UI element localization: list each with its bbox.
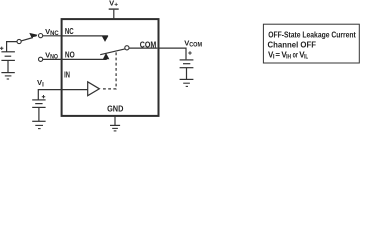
svg-text:NC: NC (50, 31, 59, 37)
battery B2 (VCOM) plate long (180, 59, 194, 61)
svg-text:Channel OFF: Channel OFF (268, 41, 317, 50)
svg-text:GND: GND (107, 105, 124, 114)
svg-text:IN: IN (64, 70, 70, 79)
plus sign B1 (0, 47, 3, 50)
ground G3 bar3 (186, 85, 188, 87)
terminal VNC circle (39, 34, 43, 38)
wire VNC to box (43, 35, 63, 37)
battery B3 plate long 2 (32, 106, 45, 108)
svg-text:=: = (275, 51, 280, 60)
buffer U2 triangle (88, 82, 100, 96)
dashed control line (103, 51, 116, 89)
switch blade COM (100, 49, 125, 55)
terminal VNO circle (39, 57, 43, 61)
svg-text:OFF-State Leakage Current: OFF-State Leakage Current (268, 31, 356, 40)
svg-text:COM: COM (140, 40, 157, 49)
battery B1 plate long 2 (1, 59, 15, 61)
wire COM to VCOM corner (129, 48, 186, 59)
V+ supply terminal bar (109, 8, 119, 10)
svg-text:COM: COM (189, 43, 202, 49)
ground G4 bar1 (110, 124, 120, 126)
wire B1 bottom to ground (7, 60, 9, 72)
ground G2 bar2 (35, 124, 43, 126)
ground G2 bar1 (32, 120, 45, 122)
leakage text box border (263, 24, 359, 63)
ground G4 bar2 (112, 127, 118, 129)
ground G1 bar1 (1, 72, 14, 74)
arrow NO up (103, 53, 110, 59)
ground G3 bar2 (183, 82, 190, 84)
ground G4 bar3 (114, 130, 117, 132)
battery B3 plate short (35, 103, 42, 105)
battery B1 plate short (5, 55, 12, 57)
svg-text:IL: IL (304, 54, 308, 60)
switch S1 pole circle (17, 39, 21, 43)
wire V+ to box top (113, 10, 115, 20)
wire B3 bottom to ground (38, 107, 40, 121)
wire NO inside box (62, 58, 107, 60)
wire NC inside box (62, 35, 108, 37)
wire GND pin to ground (114, 116, 116, 125)
ground G3 bar1 (180, 78, 194, 80)
plus sign B3 (VI) (42, 95, 45, 98)
plus sign B2 (VCOM) (188, 51, 191, 54)
IC box U1 (62, 19, 159, 116)
switch S1 arrowhead (29, 33, 37, 38)
switch S1 blade wire (21, 38, 33, 41)
ground G1 bar3 (7, 78, 9, 80)
svg-text:NC: NC (65, 27, 74, 36)
battery B2 plate long 2 (180, 67, 194, 69)
svg-text:NO: NO (65, 51, 75, 60)
svg-text:+: + (114, 2, 118, 9)
arrow NC down (102, 36, 108, 42)
switch pole circle COM (125, 46, 129, 50)
wire VNO to box (43, 58, 63, 60)
ground G2 bar3 (38, 128, 41, 130)
svg-text:IH: IH (286, 54, 291, 60)
wire B1 top to switch pole (7, 42, 17, 52)
ground G1 bar2 (5, 75, 12, 77)
wire B2 bottom to ground (186, 68, 188, 79)
svg-text:or: or (293, 51, 298, 60)
wire VI source to IN (38, 90, 88, 100)
battery B3 (VI) plate long (32, 99, 45, 101)
battery B1 (left source) plate long (1, 51, 15, 53)
battery B2 plate short (183, 63, 190, 65)
svg-text:NO: NO (50, 55, 58, 61)
